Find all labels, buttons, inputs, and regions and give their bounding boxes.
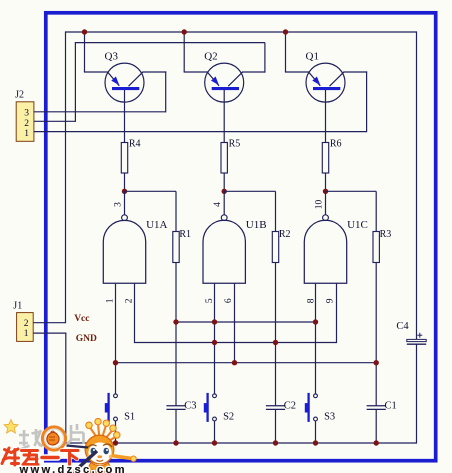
svg-text:U1C: U1C xyxy=(347,219,368,231)
svg-text:C2: C2 xyxy=(284,400,296,411)
wire: U1C output pin xyxy=(325,191,327,215)
wire: Q2 collector lead xyxy=(242,71,266,73)
wire: C3 to GND rail xyxy=(175,409,177,443)
wire: Q1 collector loop xyxy=(366,71,368,132)
svg-text:J2: J2 xyxy=(15,90,24,101)
wire: U1C pin 9 down xyxy=(336,283,338,343)
node: emitter junction of Q2 xyxy=(182,29,187,34)
svg-text:S2: S2 xyxy=(223,412,234,423)
wire: R5 base lead xyxy=(223,90,225,191)
resistor R2 xyxy=(272,229,290,263)
switch S2 xyxy=(204,393,234,423)
node: emitter junction of Q1 xyxy=(283,29,288,34)
wire: net R1/C3 to U1C pin 8 xyxy=(176,321,316,323)
wire: R1 bottom lead down to C3 xyxy=(175,263,177,406)
wire: C4 bottom lead to GND rail xyxy=(416,344,418,443)
svg-text:R2: R2 xyxy=(279,229,291,240)
svg-text:J1: J1 xyxy=(13,300,22,311)
node: C2 GND junction xyxy=(273,440,278,445)
node: junction pin6 at y362 xyxy=(232,360,237,365)
node: S3 GND junction xyxy=(313,440,318,445)
svg-text:R1: R1 xyxy=(179,229,191,240)
node: S1 GND junction xyxy=(113,440,118,445)
svg-text:C3: C3 xyxy=(184,400,196,411)
capacitor C3 xyxy=(166,400,196,411)
wire: U1A pin 2 down xyxy=(134,283,136,343)
svg-text:3: 3 xyxy=(114,202,124,207)
wire: U1B pin 6 down xyxy=(234,283,236,363)
svg-text:R6: R6 xyxy=(330,138,342,149)
transistor Q3 xyxy=(105,51,145,102)
wire: U1A output pin xyxy=(124,191,126,215)
wire: GND left vertical xyxy=(65,333,67,443)
resistor R6 xyxy=(322,138,341,173)
wire: J2 pin 3 to Q3 collector xyxy=(34,111,166,113)
capacitor C2 xyxy=(266,400,296,411)
svg-text:GND: GND xyxy=(76,334,97,344)
wire: R2 bottom lead down to C2 xyxy=(275,263,277,406)
op-amp gate U1C xyxy=(304,215,368,283)
connector J2 xyxy=(15,90,34,142)
wire: net U1A pin2 / R2 / U1C pin9 xyxy=(135,342,337,344)
svg-text:C1: C1 xyxy=(385,400,397,411)
wire: Q3 collector lead xyxy=(142,71,166,73)
node: C3 GND junction xyxy=(173,440,178,445)
svg-text:4: 4 xyxy=(213,202,223,207)
resistor R3 xyxy=(373,229,391,263)
capacitor C4 (polarized) xyxy=(396,321,426,344)
wire: R4 base lead xyxy=(124,90,126,191)
wire: GND feed from J1 pin 1 xyxy=(33,332,66,334)
node: C1 GND junction xyxy=(374,440,379,445)
resistor R4 xyxy=(121,138,140,173)
node: junction R1 at y322 xyxy=(173,319,178,324)
wire: Q3 collector loop xyxy=(165,71,167,112)
svg-text:9: 9 xyxy=(326,298,336,303)
svg-text:S1: S1 xyxy=(124,412,135,423)
svg-text:1: 1 xyxy=(105,298,115,303)
transistor Q1 xyxy=(306,51,346,102)
wire: U1B pin 5 down to S2 xyxy=(214,283,216,394)
wire: J2 pin 1 to Q1 collector xyxy=(34,131,367,133)
wire: S1 to GND rail xyxy=(115,421,117,443)
svg-text:R5: R5 xyxy=(229,138,241,149)
resistor R5 xyxy=(221,138,240,173)
capacitor C1 xyxy=(367,400,397,411)
node: junction S1 at y362 xyxy=(113,360,118,365)
node: junction pin5 at y342 xyxy=(212,340,217,345)
wire: S2 to GND rail xyxy=(214,421,216,443)
wire: J2 pin 2 run xyxy=(34,43,265,122)
wire: Vcc left vertical to J1 xyxy=(65,31,67,322)
node: gate output junction under R4 xyxy=(122,189,127,194)
wire: Q1 emitter to Vcc rail xyxy=(285,32,309,72)
svg-text:Q3: Q3 xyxy=(105,51,119,63)
wire: Q2 emitter to Vcc rail xyxy=(184,32,208,72)
node: emitter junction of Q3 xyxy=(82,29,87,34)
wire: right vertical to C4 xyxy=(416,31,418,339)
wire: S3 to GND rail xyxy=(315,421,317,443)
svg-text:10: 10 xyxy=(315,200,325,210)
svg-text:2: 2 xyxy=(24,119,29,129)
wire: U1A pin 1 down to S1 xyxy=(115,283,117,394)
wire: Vcc feed from J1 pin 2 xyxy=(33,322,66,324)
svg-text:1: 1 xyxy=(24,129,29,139)
svg-text:R4: R4 xyxy=(129,138,141,149)
wire: Q3 emitter to Vcc rail xyxy=(84,32,108,72)
svg-text:6: 6 xyxy=(224,298,234,303)
op-amp gate U1B xyxy=(203,215,267,283)
svg-text:U1A: U1A xyxy=(146,219,167,231)
svg-text:1: 1 xyxy=(24,329,29,339)
svg-text:U1B: U1B xyxy=(246,219,267,231)
wire: Q1 collector lead xyxy=(343,71,367,73)
svg-text:Q1: Q1 xyxy=(306,51,319,63)
resistor R1 xyxy=(173,229,191,263)
wire: R3 top lead from gate output xyxy=(326,191,377,231)
node: gate output junction under R5 xyxy=(222,189,227,194)
svg-text:2: 2 xyxy=(124,298,134,303)
wire: U1B output pin xyxy=(223,191,225,215)
svg-text:2: 2 xyxy=(24,319,29,329)
transistor Q2 xyxy=(204,51,244,102)
node: junction pin5 at y322 xyxy=(212,319,217,324)
svg-text:R3: R3 xyxy=(380,229,392,240)
node: junction R2 at y342 xyxy=(273,340,278,345)
svg-text:Vcc: Vcc xyxy=(74,314,89,324)
wire: R1 top lead from gate output xyxy=(125,191,177,231)
wire: U1C pin 8 down to S3 xyxy=(315,283,317,394)
wire: R2 top lead from gate output xyxy=(224,191,275,231)
node: S2 GND junction xyxy=(212,440,217,445)
wire: Vcc top rail xyxy=(66,31,417,33)
wire: net S1 / U1B pin6 / C1 xyxy=(116,362,377,364)
op-amp gate U1A xyxy=(103,215,167,283)
wire: GND bottom rail xyxy=(65,442,416,444)
switch S3 xyxy=(305,393,335,423)
svg-text:S3: S3 xyxy=(324,412,335,423)
node: junction R3/C1 at y362 xyxy=(374,360,379,365)
svg-text:Q2: Q2 xyxy=(204,51,217,63)
svg-text:C4: C4 xyxy=(396,321,409,332)
svg-text:5: 5 xyxy=(205,298,215,303)
node: junction pin8 at y322 xyxy=(313,319,318,324)
svg-text:3: 3 xyxy=(24,108,29,118)
switch S1 xyxy=(105,393,135,423)
wire: R3 bottom lead down to C1 xyxy=(375,263,377,406)
wire: R6 base lead xyxy=(325,90,327,191)
wire: C2 to GND rail xyxy=(275,409,277,443)
wire: C1 to GND rail xyxy=(375,409,377,443)
node: gate output junction under R6 xyxy=(323,189,328,194)
connector J1 xyxy=(13,300,33,341)
